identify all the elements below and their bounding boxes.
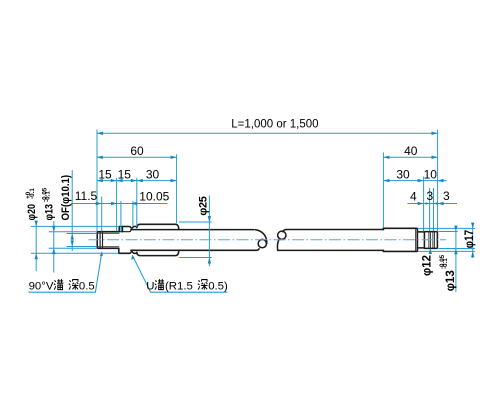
arrows dimension OF: [71, 234, 74, 240]
extension lines phi13 right: [438, 232, 475, 249]
svg-text:OF(φ10.1): OF(φ10.1): [60, 175, 72, 221]
arrows dimension 40: [383, 156, 389, 159]
extension line right end: [437, 130, 439, 232]
dimension line OF: [71, 170, 73, 251]
svg-text:φ25: φ25: [198, 196, 210, 215]
extension lines phi25: [179, 222, 212, 258]
arrows dimension 60: [97, 156, 103, 159]
pipe end chamfer line: [415, 229, 417, 251]
centerline: [89, 239, 447, 241]
break symbol right swoop: [277, 238, 279, 250]
arrow dimension phi12: [429, 249, 432, 254]
break symbol right loop: [278, 231, 286, 239]
svg-text:-0.1: -0.1: [29, 188, 36, 199]
dimension line phi25: [208, 196, 210, 267]
dimension line 60: [97, 156, 177, 158]
dimension line L: [97, 132, 438, 134]
svg-text:10: 10: [424, 168, 438, 182]
dimension line 11.5 10.05: [71, 203, 168, 205]
tube bottom edge left of break: [131, 249, 257, 251]
svg-text:-0.1: -0.1: [442, 258, 449, 269]
tube edges right of break: [278, 230, 384, 251]
arrows dimension phi20: [35, 221, 38, 227]
arrow leader U-groove: [131, 255, 134, 260]
extension lines phi13 left: [49, 232, 97, 249]
svg-text:L=1,000 or 1,500: L=1,000 or 1,500: [231, 118, 318, 130]
arrows dimension 30 10: [383, 179, 389, 182]
extension lines phi17: [418, 228, 475, 251]
step edges tip to phi20: [118, 227, 120, 254]
svg-text:φ13: φ13: [44, 204, 56, 221]
break symbol right top hook: [283, 230, 286, 232]
leader U-groove: [132, 255, 227, 292]
extension line V-groove: [101, 197, 103, 232]
arrows dimension phi13 left: [52, 226, 55, 232]
svg-text:3: 3: [443, 189, 450, 203]
shaft right tip phi13 outline: [424, 232, 437, 249]
ring groove lines on right tip: [429, 232, 435, 249]
svg-text:40: 40: [404, 144, 418, 158]
dimension line 4 3 3: [408, 203, 458, 205]
phi25 collar bottom outline: [137, 250, 179, 255]
svg-text:0.5): 0.5): [208, 280, 228, 292]
phi20 top edge with U-groove dip: [119, 227, 137, 229]
arrows dimension phi17: [471, 223, 474, 229]
arrows dimension phi25: [208, 216, 211, 222]
tube top edge left of break: [131, 229, 254, 231]
svg-text:φ20: φ20: [26, 204, 38, 221]
step edges tube to phi17: [382, 228, 384, 251]
extension line notch: [120, 201, 122, 231]
svg-text:(R1.5: (R1.5: [165, 280, 193, 292]
extension line collar end: [176, 154, 178, 223]
dimension line 40: [383, 156, 437, 158]
break symbol left loop: [258, 239, 266, 247]
svg-text:U: U: [146, 280, 154, 292]
svg-text:30: 30: [146, 168, 160, 182]
dimension line 30 10: [383, 180, 446, 182]
arrows dimension phi13 right: [454, 226, 457, 232]
svg-text:10.05: 10.05: [139, 189, 169, 203]
extension line groove A: [429, 188, 431, 231]
svg-text:φ17: φ17: [463, 230, 476, 248]
arrows dimension L: [97, 132, 103, 135]
svg-text:0.5: 0.5: [79, 280, 95, 292]
inner shoulder line behind phi20: [119, 230, 131, 232]
arrows dimension 4 3 3: [418, 202, 424, 205]
svg-text:15: 15: [118, 168, 132, 182]
extension line collar start: [136, 178, 138, 227]
OF flat edge lines on left tip: [98, 233, 119, 246]
phi20 bottom edge with U-groove notch: [119, 252, 137, 254]
break symbol left swoop: [255, 230, 267, 244]
phi17 pipe section outline: [383, 228, 417, 251]
dimension line phi20: [35, 221, 37, 271]
svg-text:φ12: φ12: [421, 255, 433, 276]
extension line right tip start: [423, 177, 425, 232]
svg-text:-0.1: -0.1: [45, 191, 52, 202]
extension lines phi20: [31, 226, 119, 253]
svg-text:90°V: 90°V: [29, 280, 54, 292]
extension line left end: [96, 130, 98, 232]
arrows dimension 15 15 30: [97, 179, 103, 182]
break symbol left bottom hook: [257, 249, 259, 251]
relief notch edge on phi20: [121, 227, 123, 232]
shaft left tip phi13 outline: [97, 232, 119, 249]
phi25 collar top outline: [137, 224, 179, 229]
extension line 15 tick: [116, 178, 118, 232]
dimension line phi12: [429, 249, 431, 254]
extension line pipe step: [382, 153, 384, 228]
arrow leader 90deg V-groove: [100, 252, 103, 257]
extension line groove B: [433, 188, 435, 231]
90deg V-groove lines on left tip: [100, 232, 102, 249]
extension lines OF: [67, 234, 98, 247]
leader 90deg V-groove: [29, 252, 102, 292]
dimension line phi13 left: [53, 221, 55, 273]
arrows dimension 11.5 10.05: [96, 202, 102, 205]
svg-text:15: 15: [98, 168, 112, 182]
phi12 neck edges: [417, 232, 424, 248]
svg-text:11.5: 11.5: [75, 189, 98, 203]
svg-text:φ13: φ13: [445, 270, 457, 291]
dimension line phi17: [472, 223, 474, 258]
dimension line 15 15 30: [97, 180, 177, 182]
svg-text:3: 3: [426, 189, 433, 203]
svg-text:4: 4: [410, 189, 417, 203]
svg-text:30: 30: [396, 168, 410, 182]
extension line U-groove: [132, 201, 134, 226]
svg-text:60: 60: [130, 144, 144, 158]
dimension line phi13 right: [455, 226, 457, 292]
